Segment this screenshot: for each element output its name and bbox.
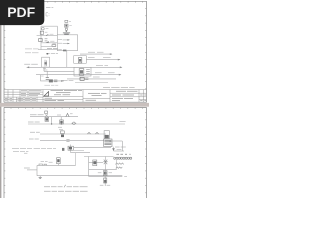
U1 row 2 label bbox=[58, 42, 62, 44]
wire feed to U1 bbox=[56, 26, 58, 35]
pin text under T1 bbox=[43, 69, 47, 70]
PAGE 1 SCHEMATIC CONTENT bbox=[24, 7, 134, 87]
R1a arrow bbox=[110, 53, 113, 55]
label row under bbox=[44, 84, 58, 86]
center/right section dividers bbox=[42, 90, 44, 103]
wire bus 2 bbox=[28, 123, 125, 125]
switch S1 bbox=[46, 34, 48, 35]
wire bottom bbox=[89, 175, 123, 177]
wire bbox=[41, 42, 58, 44]
wire short low bbox=[75, 82, 108, 84]
transistor Q4 bbox=[103, 157, 108, 171]
transistor Q3 bbox=[61, 131, 65, 137]
wire from U1 down bbox=[66, 51, 68, 68]
label above bbox=[117, 148, 122, 150]
value label bbox=[45, 31, 48, 33]
RV1 label bbox=[70, 113, 73, 115]
U1 bottom pin label bbox=[58, 48, 62, 50]
scan left edge strip bbox=[0, 0, 1, 198]
net label bus 1 bbox=[30, 114, 44, 116]
wire drop left bbox=[41, 75, 64, 81]
comps on loop top bbox=[39, 164, 46, 165]
K3 core bbox=[105, 135, 109, 138]
wire low mid bbox=[89, 169, 117, 171]
regulator VR1 stack bbox=[65, 20, 68, 31]
long wire with left arrow bbox=[27, 66, 122, 68]
capacitor C1 bbox=[46, 71, 48, 77]
wire w2 bbox=[40, 140, 104, 142]
transistor Q5 bbox=[103, 170, 107, 186]
net label left bbox=[24, 63, 38, 65]
note text row bbox=[103, 87, 135, 89]
value label bbox=[50, 33, 54, 35]
wire junction stub bbox=[43, 67, 45, 71]
PAGE 1 FRAME bbox=[4, 1, 147, 102]
loop bottom wire long bbox=[37, 175, 122, 177]
fuse F1 bbox=[52, 45, 56, 47]
wire bus vertical bbox=[40, 26, 42, 50]
PAGE 2 SCHEMATIC CONTENT bbox=[12, 111, 132, 191]
PDF badge bbox=[0, 0, 44, 25]
R1a labels bbox=[88, 51, 104, 53]
A2 aux marks bbox=[86, 70, 90, 74]
dark tag bbox=[62, 148, 64, 151]
wire from K3 right bbox=[109, 140, 122, 142]
wire low bbox=[67, 78, 116, 80]
R4a labels bbox=[95, 72, 115, 74]
arrow end of long wire bbox=[120, 66, 123, 68]
zigzag pair bbox=[115, 163, 123, 168]
subtitle rows bbox=[45, 98, 65, 100]
long wire mid bbox=[36, 74, 121, 76]
arrowhead left bbox=[27, 66, 30, 68]
loop top wire bbox=[37, 164, 76, 166]
side note labels bbox=[25, 49, 39, 53]
right link vertical bbox=[75, 153, 77, 166]
R2a labels bbox=[88, 57, 111, 59]
diode stack D2 bbox=[104, 178, 107, 183]
resistor R1 bbox=[49, 79, 53, 82]
dense block D1 bbox=[104, 139, 112, 147]
ground under VR1 bbox=[63, 33, 70, 34]
wire bus 1 bbox=[30, 116, 78, 118]
net label top bbox=[46, 6, 53, 8]
frame top border bbox=[4, 0, 147, 2]
R4a arrow bbox=[119, 74, 122, 76]
wire stub down from bus1 bbox=[51, 117, 53, 124]
T1 winding bbox=[45, 60, 46, 67]
thermal switch on box bottom bbox=[63, 50, 66, 52]
C1 polarity label bbox=[41, 75, 43, 77]
w2 net label bbox=[29, 138, 39, 140]
page separator band bbox=[0, 103, 149, 107]
company text rows bbox=[51, 91, 83, 95]
frame left border p2 bbox=[3, 108, 5, 199]
wire bbox=[41, 25, 58, 27]
control unit A1 bbox=[74, 55, 87, 63]
bottom note row 1 bbox=[44, 186, 88, 188]
frame zone ticks bbox=[4, 1, 147, 89]
value label bbox=[52, 43, 55, 45]
D2 label bbox=[100, 184, 110, 186]
frame bottom border bbox=[4, 101, 147, 103]
logo triangle bbox=[44, 92, 49, 96]
transformer T1 box bbox=[42, 57, 50, 67]
slash mark bbox=[64, 185, 66, 188]
wire bbox=[41, 45, 56, 47]
title block top line bbox=[4, 89, 147, 91]
value label bbox=[50, 40, 54, 42]
control unit A2 bbox=[74, 67, 91, 76]
capacitor C2 to ground bbox=[39, 176, 42, 179]
relay box K3 bbox=[104, 131, 109, 139]
connector J1 bbox=[46, 13, 49, 16]
frame top border p2 bbox=[4, 107, 147, 109]
net text on wire bbox=[47, 48, 58, 50]
L1 marks bbox=[85, 78, 88, 80]
R5a label bbox=[93, 76, 100, 78]
junction dots bus2 bbox=[51, 123, 52, 124]
net label bus 2 bbox=[28, 121, 40, 123]
output wire R2a bbox=[86, 59, 120, 61]
loop vertical bbox=[36, 165, 38, 175]
choke L1 bbox=[80, 77, 84, 80]
sub left label bbox=[24, 167, 30, 169]
seven-seg text row bbox=[116, 153, 130, 155]
wire w1 bbox=[40, 133, 106, 135]
right vertical 2 bbox=[115, 160, 117, 170]
arrow on wire bbox=[61, 80, 64, 82]
revision table rows bbox=[4, 91, 43, 93]
PAGE 1 TITLE BLOCK bbox=[4, 90, 147, 103]
right block text bbox=[112, 91, 146, 101]
relay K1 bbox=[40, 31, 43, 34]
inline comp on bus2 bbox=[72, 122, 77, 124]
diode pair on w1 bbox=[87, 132, 98, 134]
output wire R1a bbox=[80, 53, 112, 55]
left vertical bbox=[88, 157, 90, 177]
bus2 right label bbox=[119, 121, 125, 123]
diode CR1 bbox=[45, 41, 49, 43]
dark dot in label bbox=[47, 53, 49, 55]
relay K2 bbox=[39, 39, 43, 42]
wire mid2 bbox=[84, 156, 114, 158]
U1 row 2 arrow bbox=[63, 43, 68, 45]
bottom note row 2 bbox=[44, 190, 88, 192]
LED row bbox=[114, 157, 132, 159]
value label bbox=[46, 28, 49, 30]
text row under D1 bbox=[115, 146, 126, 148]
net label mid wire bbox=[96, 64, 108, 66]
stub label mid bbox=[58, 127, 63, 130]
PAGE 2 FRAME bbox=[4, 108, 147, 199]
w1 net label bbox=[30, 131, 40, 133]
wire node right bbox=[114, 150, 125, 152]
lamp DS1 bbox=[42, 27, 45, 30]
transistor Q1 bbox=[45, 111, 49, 121]
driver H1 bbox=[93, 160, 97, 166]
sensor B1 bbox=[57, 158, 61, 166]
page background bbox=[0, 0, 149, 198]
wire bbox=[37, 35, 58, 37]
A1 coil bbox=[78, 58, 81, 63]
wire from E bbox=[73, 149, 84, 151]
U1 row 1 arrow bbox=[63, 39, 68, 41]
module box U1 bbox=[57, 35, 77, 51]
wire mid bbox=[74, 146, 111, 148]
net label left low bbox=[62, 80, 73, 82]
U1 row 1 label bbox=[58, 39, 62, 41]
transistor Q2 bbox=[60, 117, 64, 124]
Q5 side labels bbox=[98, 172, 112, 174]
revision table columns bbox=[7, 90, 9, 103]
wire with net text bbox=[38, 49, 58, 51]
stub wire bbox=[27, 169, 37, 171]
cluster E contactor bbox=[68, 145, 73, 153]
VR1 labels bbox=[69, 21, 72, 25]
R2a arrow bbox=[118, 59, 121, 61]
small mark right bbox=[124, 176, 127, 178]
VR1 dark core bbox=[65, 25, 67, 27]
label dashes mid bbox=[41, 160, 53, 163]
T1 core dot bbox=[44, 62, 46, 64]
contact marks bbox=[45, 39, 48, 41]
wire into Q4 bbox=[89, 162, 103, 164]
tiny label bbox=[24, 152, 27, 154]
label on bus 1 bbox=[57, 114, 61, 116]
wire from E low bbox=[71, 152, 90, 154]
arrow into node bbox=[112, 147, 115, 151]
varistor RV1 bbox=[66, 113, 69, 116]
label above T1 bbox=[46, 53, 58, 55]
A2 coil bbox=[79, 69, 84, 75]
wire bbox=[44, 70, 74, 72]
R1 value marks bbox=[54, 80, 58, 82]
revision table texts bbox=[5, 91, 42, 101]
frame left border bbox=[3, 24, 5, 102]
drawing number text bbox=[86, 93, 107, 100]
svg-text:PDF: PDF bbox=[7, 4, 35, 20]
left note rows bbox=[12, 148, 56, 151]
frame right border p2 bbox=[146, 108, 148, 199]
frame right border bbox=[146, 1, 148, 102]
vertical drop right bbox=[121, 141, 123, 151]
marks on w2 bbox=[66, 139, 69, 141]
